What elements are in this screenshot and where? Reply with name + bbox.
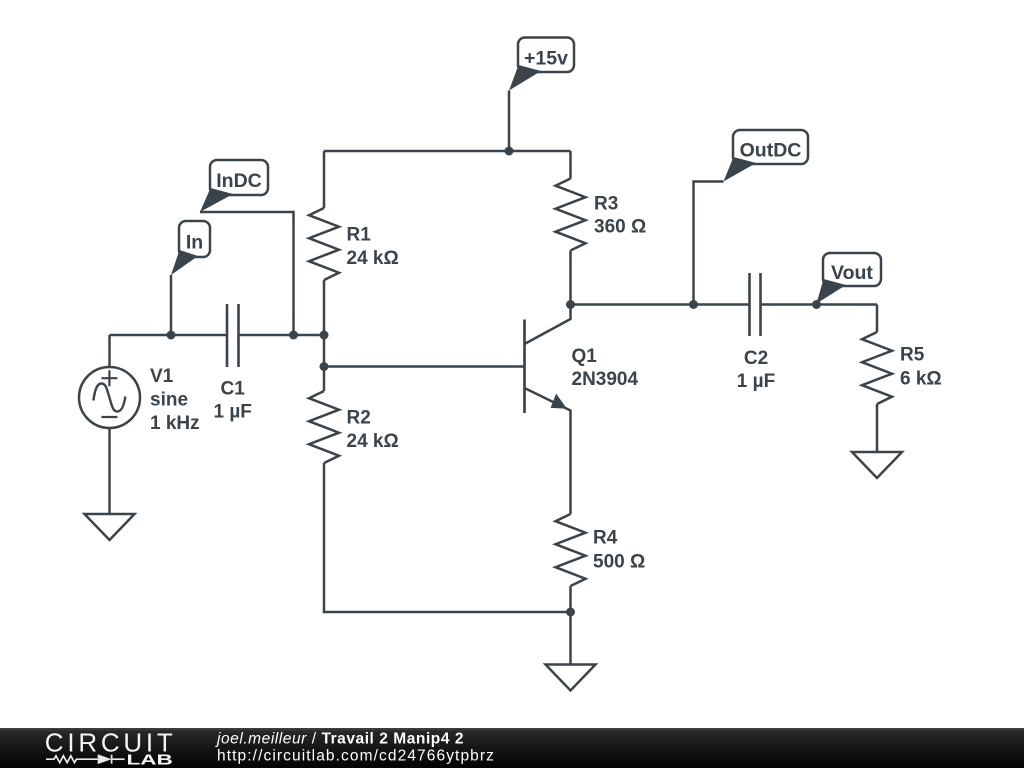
- flag InDC pointer: [200, 188, 233, 212]
- wire In flag stem: [170, 275, 173, 335]
- wire output rail (C2 to R5): [761, 303, 878, 306]
- wire InDC flag stem: [200, 212, 294, 335]
- svg-text:Q1: Q1: [572, 346, 598, 367]
- flag +15v pointer: [509, 65, 541, 91]
- svg-text:R2: R2: [347, 407, 371, 428]
- capacitor C1: [227, 304, 239, 367]
- svg-text:http://circuitlab.com/cd24766y: http://circuitlab.com/cd24766ytpbrz: [217, 748, 495, 765]
- svg-text:1 µF: 1 µF: [213, 402, 251, 423]
- svg-text:LAB: LAB: [127, 751, 174, 768]
- wire R3 bottom lead: [569, 251, 572, 305]
- wire top supply rail: [324, 150, 571, 153]
- node R1 bottom junction: [320, 331, 329, 340]
- svg-text:sine: sine: [150, 390, 188, 411]
- wire +15v stem: [508, 91, 511, 152]
- svg-text:OutDC: OutDC: [740, 140, 802, 162]
- flag InDC box: [210, 160, 268, 195]
- voltage source V1: [79, 335, 140, 514]
- resistor R4: [556, 514, 586, 586]
- ground under R4: [546, 665, 596, 691]
- svg-text:R3: R3: [594, 193, 618, 214]
- node base junction: [320, 362, 329, 371]
- flag +15v box: [518, 38, 574, 73]
- svg-text:1 kHz: 1 kHz: [150, 413, 200, 434]
- wire OutDC flag stem: [694, 182, 724, 305]
- wire R3 top lead: [569, 151, 572, 179]
- svg-text:24 kΩ: 24 kΩ: [347, 248, 399, 269]
- resistor R5: [862, 332, 892, 404]
- wire R2 bottom lead to bottom rail: [324, 463, 571, 612]
- svg-text:Vout: Vout: [831, 262, 873, 284]
- wire R4 bottom lead: [569, 586, 572, 612]
- transistor Q1: [525, 305, 571, 515]
- wire ground stem below R4: [569, 612, 572, 665]
- svg-text:360 Ω: 360 Ω: [594, 217, 646, 238]
- wire R5 top lead: [876, 305, 879, 333]
- node In junction: [167, 331, 176, 340]
- node collector junction: [566, 300, 575, 309]
- svg-text:R1: R1: [347, 224, 372, 245]
- svg-text:2N3904: 2N3904: [572, 369, 639, 390]
- resistor R2: [309, 391, 339, 463]
- wire output rail (collector to C2): [571, 303, 750, 306]
- svg-text:joel.meilleur / Travail 2 Mani: joel.meilleur / Travail 2 Manip4 2: [215, 731, 464, 748]
- wire base (divider to Q1): [324, 365, 525, 368]
- flag OutDC box: [733, 130, 808, 164]
- svg-text:C2: C2: [744, 348, 768, 369]
- node OutDC junction: [689, 300, 698, 309]
- wire input rail right (C1 to R1/R2): [239, 334, 325, 337]
- wire R1 to R2: [323, 335, 326, 391]
- wire input rail left (V1 to C1): [110, 334, 228, 337]
- svg-text:6 kΩ: 6 kΩ: [900, 368, 942, 389]
- node Vout junction: [812, 300, 821, 309]
- svg-text:500 Ω: 500 Ω: [593, 552, 645, 573]
- svg-text:InDC: InDC: [216, 170, 262, 192]
- svg-text:R4: R4: [593, 527, 618, 548]
- node junction +15v/top rail: [505, 147, 514, 156]
- svg-text:24 kΩ: 24 kΩ: [347, 431, 399, 452]
- ground under R5: [852, 452, 902, 478]
- flag In box: [179, 221, 210, 257]
- capacitor C2: [750, 273, 761, 336]
- node emitter rail junction: [566, 608, 575, 617]
- wire R1 bottom lead: [323, 280, 326, 335]
- flag Vout box: [823, 253, 881, 286]
- svg-text:V1: V1: [150, 366, 174, 387]
- svg-text:C1: C1: [221, 379, 246, 400]
- wire R1 top lead: [323, 151, 326, 208]
- resistor R1: [309, 208, 339, 280]
- svg-text:1 µF: 1 µF: [737, 371, 775, 392]
- CircuitLab logo resistor-diode doodle: [46, 755, 125, 764]
- flag In pointer: [171, 250, 198, 275]
- resistor R3: [556, 179, 586, 251]
- wire R5 bottom lead: [876, 404, 879, 452]
- node InDC junction: [289, 331, 298, 340]
- flag OutDC pointer: [724, 157, 757, 182]
- svg-text:In: In: [186, 232, 203, 254]
- ground under V1: [85, 514, 135, 540]
- svg-text:R5: R5: [900, 344, 925, 365]
- flag Vout pointer: [817, 279, 847, 304]
- svg-text:+15v: +15v: [524, 47, 568, 69]
